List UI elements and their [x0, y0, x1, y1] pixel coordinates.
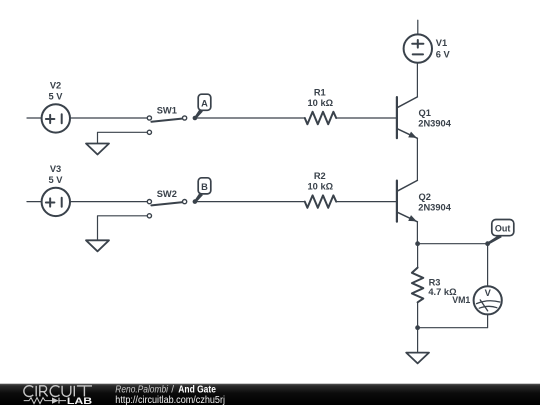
- label R1: [308, 88, 334, 108]
- svg-text:LAB: LAB: [67, 396, 92, 405]
- svg-text:A: A: [201, 98, 208, 108]
- svg-text:SW2: SW2: [157, 189, 177, 199]
- svg-text:B: B: [201, 182, 208, 192]
- node A junction: [193, 116, 198, 121]
- wire: [70, 201, 147, 203]
- wire: [98, 132, 148, 143]
- node junction (ground): [415, 325, 420, 330]
- label R3: [428, 277, 457, 297]
- switch SW2: [147, 200, 186, 218]
- svg-text:10 kΩ: 10 kΩ: [308, 182, 334, 192]
- svg-text:Q1: Q1: [419, 108, 431, 118]
- node junction (emitter/R3/out): [415, 241, 420, 246]
- svg-text:V: V: [485, 288, 492, 298]
- resistor R1: [305, 112, 336, 124]
- wire: [27, 201, 42, 203]
- svg-text:4.7 kΩ: 4.7 kΩ: [428, 287, 457, 297]
- net flag B: [194, 178, 211, 203]
- wire: [336, 117, 396, 119]
- wire: [416, 63, 418, 97]
- svg-text:2N3904: 2N3904: [418, 119, 451, 129]
- CircuitLab logo squiggle: [24, 398, 66, 404]
- wire: [487, 244, 489, 287]
- net flag Out: [487, 220, 514, 245]
- CircuitLab logo CIRCUIT: [24, 386, 92, 397]
- label R2: [308, 171, 334, 191]
- resistor R3: [412, 268, 423, 303]
- label V1: [436, 38, 451, 59]
- svg-text:V1: V1: [436, 38, 447, 48]
- svg-text:R2: R2: [314, 171, 326, 181]
- voltmeter VM1: [474, 286, 502, 314]
- wire: [98, 216, 148, 241]
- voltage source V2: [42, 104, 70, 132]
- svg-text:R3: R3: [429, 277, 441, 287]
- wire: [417, 328, 419, 353]
- wire: [416, 222, 418, 244]
- svg-text:6 V: 6 V: [436, 49, 451, 59]
- wire: [417, 20, 419, 34]
- wire: [197, 117, 305, 119]
- svg-text:http://circuitlab.com/czhu5rj: http://circuitlab.com/czhu5rj: [115, 395, 225, 405]
- svg-text:SW1: SW1: [157, 106, 177, 116]
- node B junction: [193, 199, 198, 204]
- label V2: [49, 81, 64, 102]
- svg-text:/: /: [171, 385, 174, 396]
- net flag A: [194, 94, 211, 119]
- resistor R2: [305, 195, 336, 207]
- ground (SW2): [86, 240, 109, 251]
- footer bar: [0, 384, 540, 405]
- svg-text:Reno.Palombi: Reno.Palombi: [115, 385, 168, 396]
- transistor Q2 emitter arrow: [408, 215, 417, 221]
- voltage source V3: [42, 188, 70, 216]
- ground (SW1): [86, 144, 109, 155]
- wire: [418, 314, 488, 327]
- svg-text:And Gate: And Gate: [178, 385, 216, 396]
- svg-text:10 kΩ: 10 kΩ: [308, 98, 334, 108]
- wire: [418, 243, 488, 245]
- svg-text:Q2: Q2: [419, 192, 431, 202]
- wire: [417, 244, 419, 268]
- svg-text:V2: V2: [50, 81, 61, 91]
- wire: [417, 302, 419, 327]
- ground (output): [406, 353, 429, 364]
- switch SW1: [147, 116, 186, 134]
- svg-text:V3: V3: [50, 164, 61, 174]
- wire: [27, 117, 42, 119]
- node junction (out): [485, 241, 490, 246]
- label Q2: [418, 192, 451, 213]
- svg-text:5 V: 5 V: [49, 91, 64, 101]
- transistor Q1 emitter arrow: [408, 132, 417, 138]
- label Q1: [418, 108, 451, 128]
- transistor Q2: [397, 180, 418, 221]
- wire: [197, 201, 305, 203]
- wire: [416, 138, 418, 180]
- svg-text:5 V: 5 V: [49, 175, 64, 185]
- wire: [336, 201, 396, 203]
- label V3: [49, 164, 64, 185]
- svg-text:2N3904: 2N3904: [418, 202, 451, 212]
- wire: [70, 117, 147, 119]
- svg-text:R1: R1: [314, 88, 326, 98]
- transistor Q1: [397, 97, 418, 138]
- voltage source V1: [404, 34, 432, 62]
- svg-text:Out: Out: [495, 223, 511, 233]
- CircuitLab logo diode: [52, 398, 59, 404]
